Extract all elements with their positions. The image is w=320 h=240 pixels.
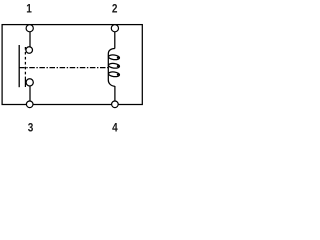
svg-text:4: 4 bbox=[112, 120, 118, 134]
terminal 1 bbox=[26, 25, 33, 32]
terminal 4 bbox=[112, 101, 119, 108]
enclosure wire rectangle bbox=[2, 25, 142, 105]
wire pin2 to coil bbox=[114, 25, 116, 49]
terminal 2 bbox=[111, 25, 118, 32]
svg-text:2: 2 bbox=[112, 1, 118, 15]
contact armature bar bbox=[18, 45, 20, 87]
wire pin1 to contact bbox=[29, 25, 31, 47]
svg-text:1: 1 bbox=[26, 1, 32, 15]
coil L1 bbox=[108, 49, 119, 87]
mechanical linkage horizontal dash-dot bbox=[19, 67, 108, 69]
wire contact to pin3 bbox=[29, 86, 31, 105]
wire coil to pin4 bbox=[114, 86, 116, 105]
svg-text:3: 3 bbox=[28, 120, 34, 134]
contact fixed point (upper circle) bbox=[26, 47, 33, 54]
terminal 3 bbox=[26, 101, 33, 108]
contact movable point (lower circle with blade) bbox=[25, 77, 33, 87]
mechanical linkage vertical dashed bbox=[24, 47, 26, 77]
